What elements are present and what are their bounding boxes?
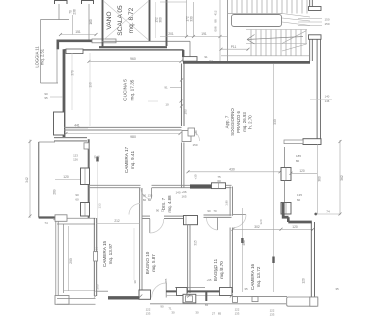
svg-text:30: 30 xyxy=(133,280,137,284)
svg-text:135: 135 xyxy=(148,194,153,198)
svg-text:70: 70 xyxy=(213,209,217,213)
vano scala cross diag 1 xyxy=(104,2,148,40)
dim line 120 terrace xyxy=(55,179,80,181)
camera15 faint dim line xyxy=(133,228,135,280)
svg-text:35: 35 xyxy=(335,287,339,291)
cucina top wall xyxy=(64,49,184,51)
bagno10/11 divider xyxy=(187,225,189,293)
svg-text:10: 10 xyxy=(165,103,169,107)
svg-text:VANO: VANO xyxy=(106,11,113,29)
svg-text:185: 185 xyxy=(296,154,301,158)
dim line P11 xyxy=(221,48,248,50)
svg-text:85: 85 xyxy=(218,312,222,316)
svg-text:212: 212 xyxy=(114,219,120,223)
svg-text:151: 151 xyxy=(75,30,81,34)
vano block bottom wall xyxy=(99,46,167,48)
svg-text:91: 91 xyxy=(164,86,168,90)
svg-text:120: 120 xyxy=(299,169,305,173)
svg-text:mq. 26.93: mq. 26.93 xyxy=(242,112,247,132)
balcony bottom corner box xyxy=(55,296,69,305)
left wall step box xyxy=(84,143,89,149)
svg-text:960: 960 xyxy=(130,57,136,61)
svg-text:133: 133 xyxy=(235,312,240,316)
dim line 302 xyxy=(233,228,281,230)
svg-text:90: 90 xyxy=(160,305,164,309)
svg-text:480: 480 xyxy=(242,240,246,246)
staircase treads upper flight xyxy=(231,0,233,14)
stair right pillar B xyxy=(309,35,322,40)
svg-text:315: 315 xyxy=(194,240,198,246)
dim line top mid xyxy=(160,1,187,3)
camera16 bottom line xyxy=(232,296,287,298)
svg-text:75: 75 xyxy=(96,155,100,159)
window on upper terrace wall xyxy=(92,39,116,43)
cucina-soggiorno boundary xyxy=(180,64,182,127)
staircase treads lower flight xyxy=(250,44,252,56)
dim line 91 opening xyxy=(170,87,181,89)
staircase treads right winders upper xyxy=(286,0,288,14)
svg-text:60: 60 xyxy=(148,198,152,202)
svg-text:238: 238 xyxy=(72,9,76,15)
loggia 11 bottom edge xyxy=(41,82,59,84)
dim vert 342 xyxy=(29,140,31,219)
svg-text:165: 165 xyxy=(181,195,186,199)
shaft box inner line xyxy=(185,216,187,225)
svg-text:90: 90 xyxy=(75,193,79,197)
right exterior wall upper xyxy=(316,39,318,144)
soggiorno top / stair bottom wall xyxy=(183,61,310,64)
svg-text:098: 098 xyxy=(214,26,218,31)
svg-text:95: 95 xyxy=(44,96,48,100)
svg-text:320: 320 xyxy=(259,219,263,224)
svg-text:146: 146 xyxy=(325,99,330,103)
svg-text:90: 90 xyxy=(156,209,160,213)
svg-text:30: 30 xyxy=(171,311,175,315)
svg-text:140: 140 xyxy=(175,191,180,195)
window band top right xyxy=(284,140,303,144)
svg-text:mq. 13.72: mq. 13.72 xyxy=(256,266,261,287)
door camera16 leaf and arc xyxy=(233,214,246,216)
svg-text:290: 290 xyxy=(69,258,73,264)
dim vert 480 xyxy=(241,208,243,292)
svg-text:91: 91 xyxy=(204,55,208,59)
svg-text:65: 65 xyxy=(205,303,209,307)
svg-text:133: 133 xyxy=(270,313,275,317)
shaft box between bagni xyxy=(184,216,198,225)
dim vert 290 xyxy=(68,226,70,291)
outer boundary top connector xyxy=(39,141,55,143)
bottom box F xyxy=(177,288,188,296)
bottom box camera15-bagno10 xyxy=(139,290,151,299)
svg-text:27: 27 xyxy=(212,312,216,316)
stair right wall upper xyxy=(309,0,311,7)
camera15 window jamb A xyxy=(81,168,90,185)
svg-text:980: 980 xyxy=(130,135,136,139)
outer boundary bottom wall xyxy=(39,216,60,218)
staircase landing rail xyxy=(232,15,282,27)
svg-text:mq. 17.35: mq. 17.35 xyxy=(130,79,135,100)
svg-text:165: 165 xyxy=(215,266,219,271)
svg-text:mq. 8.72: mq. 8.72 xyxy=(128,7,135,33)
dim line 212 xyxy=(96,223,140,225)
svg-text:085: 085 xyxy=(164,278,168,283)
svg-text:133: 133 xyxy=(146,312,151,316)
pillar top-left A xyxy=(55,1,68,5)
svg-text:74: 74 xyxy=(326,210,330,214)
svg-text:370: 370 xyxy=(71,70,75,76)
winder diag lower a xyxy=(282,31,307,44)
svg-text:mq. 2.51: mq. 2.51 xyxy=(40,48,45,65)
leader right labels xyxy=(310,99,332,101)
svg-text:330: 330 xyxy=(273,119,277,125)
svg-text:92: 92 xyxy=(209,59,213,63)
niche box soggiorno left xyxy=(188,128,195,136)
svg-text:330: 330 xyxy=(189,16,193,22)
winder fan lines upper right xyxy=(282,14,310,18)
camera15 left wall upper xyxy=(88,139,90,218)
svg-text:150: 150 xyxy=(192,143,197,147)
svg-text:SOGGIORNO: SOGGIORNO xyxy=(230,108,235,136)
right inset pillar A xyxy=(281,168,291,181)
right inset window line a xyxy=(284,147,286,168)
dim line 430 xyxy=(188,171,280,173)
svg-text:88: 88 xyxy=(214,19,218,23)
balcony parapet inner xyxy=(63,224,65,293)
bottom-right corner box xyxy=(310,297,318,306)
jog wall xyxy=(56,41,59,50)
dim line 441 xyxy=(66,127,88,129)
cucina top window xyxy=(66,49,83,54)
svg-text:133: 133 xyxy=(98,203,102,208)
soggiorno bottom wall xyxy=(183,184,232,186)
loggia 11 left edge xyxy=(40,20,42,84)
dim vert cucina b xyxy=(89,53,91,126)
shaft dim line xyxy=(155,2,157,38)
door dis-bagno10 leaf and arc xyxy=(149,219,151,233)
dim vert 362 xyxy=(339,140,341,215)
svg-text:412: 412 xyxy=(214,10,218,15)
camera15 left wall lower xyxy=(93,218,95,296)
svg-text:342: 342 xyxy=(25,177,29,183)
bottom-left balcony band xyxy=(57,298,96,300)
svg-text:CUCINA 5: CUCINA 5 xyxy=(123,79,128,101)
svg-text:120: 120 xyxy=(302,278,306,284)
dim line 120 inset xyxy=(291,172,317,174)
soggiorno top window box xyxy=(183,57,197,62)
svg-text:h. 2.70: h. 2.70 xyxy=(248,115,253,129)
svg-text:P11: P11 xyxy=(231,45,237,49)
svg-text:60: 60 xyxy=(217,179,221,183)
step wall cucina-soggiorno xyxy=(182,50,184,57)
dim line 960 xyxy=(89,60,181,62)
vano scala room bottom edge xyxy=(102,40,191,42)
dim vert 330 long xyxy=(273,64,275,292)
balcony left parapet xyxy=(55,219,57,298)
svg-text:120: 120 xyxy=(292,225,298,229)
camera15 window jamb B xyxy=(81,203,90,217)
svg-text:362: 362 xyxy=(340,175,344,181)
dis bottom wall left b xyxy=(164,215,184,217)
stair left wall xyxy=(227,0,229,62)
camera17/camera15 top wall xyxy=(89,184,141,186)
svg-text:60: 60 xyxy=(143,198,147,202)
svg-text:150: 150 xyxy=(324,22,329,26)
loggia 11 inner edge xyxy=(56,42,58,83)
shaft right wall xyxy=(166,0,168,46)
svg-text:mq. 5.87: mq. 5.87 xyxy=(151,254,156,272)
soggiorno window box xyxy=(212,183,226,189)
bottom outer line xyxy=(150,303,286,305)
svg-text:360: 360 xyxy=(317,176,321,182)
bottom-right balcony rect xyxy=(287,297,318,306)
svg-text:289: 289 xyxy=(53,189,57,195)
dim vert 344 line xyxy=(97,162,99,248)
svg-text:80: 80 xyxy=(296,159,300,163)
right step wall vert a xyxy=(282,203,285,216)
camera16 bottom box a xyxy=(233,297,238,303)
svg-text:344: 344 xyxy=(95,247,99,253)
camera16 left wall lower xyxy=(229,228,231,294)
staircase direction arrow xyxy=(247,37,303,40)
svg-text:BAGNO 10: BAGNO 10 xyxy=(145,251,150,274)
svg-text:+30: +30 xyxy=(194,174,198,179)
camera15 bottom thin line xyxy=(96,290,109,292)
door cucina-soggiorno leaf box xyxy=(182,131,191,142)
svg-text:126: 126 xyxy=(73,158,78,162)
camera16 bottom box b xyxy=(252,297,258,302)
bagni bottom upper line xyxy=(175,287,205,289)
door camera17-dis leaf and arc xyxy=(151,188,153,199)
svg-text:360: 360 xyxy=(158,17,162,23)
leader line a xyxy=(298,18,322,20)
dim vert 70-238 xyxy=(72,15,74,35)
svg-text:mq. 9.41: mq. 9.41 xyxy=(130,150,135,169)
left wall pilaster xyxy=(54,112,65,135)
thin step line right xyxy=(189,41,191,56)
upper terrace wall xyxy=(57,39,103,42)
bottom center box xyxy=(183,294,196,303)
vano scala left wall xyxy=(102,0,104,47)
dim vert cucina a xyxy=(71,53,73,110)
svg-text:90: 90 xyxy=(143,194,147,198)
right inset window line b xyxy=(284,181,286,203)
pillar top-left B xyxy=(82,1,94,5)
svg-text:SCALA 05: SCALA 05 xyxy=(117,5,124,36)
wire pillarB stem xyxy=(88,4,90,40)
dis bottom wall left a xyxy=(142,215,150,217)
dim line 151 xyxy=(61,34,97,36)
svg-text:120: 120 xyxy=(63,175,69,179)
svg-text:74: 74 xyxy=(44,221,48,225)
bottom center inner box xyxy=(186,296,193,302)
dim line 74 r xyxy=(316,213,340,215)
svg-text:CAMERA 17: CAMERA 17 xyxy=(124,146,129,173)
svg-text:30: 30 xyxy=(195,311,199,315)
cucina bottom wall xyxy=(64,126,182,128)
dim vert 330b xyxy=(219,0,221,62)
right step wall horiz a xyxy=(282,216,289,219)
svg-text:+95: +95 xyxy=(207,278,212,282)
vano scala cross diag 2 xyxy=(104,2,148,40)
right exterior wall lower xyxy=(310,222,312,298)
stair right pillar A xyxy=(309,7,322,11)
svg-text:60: 60 xyxy=(297,198,301,202)
balcony inner bottom line xyxy=(64,290,96,292)
svg-text:12: 12 xyxy=(161,209,165,213)
vano scala right wall xyxy=(149,0,151,41)
bagno10 door: leaf + arc xyxy=(165,283,167,298)
svg-text:90: 90 xyxy=(207,209,211,213)
svg-text:+30: +30 xyxy=(194,130,198,135)
svg-text:201: 201 xyxy=(168,32,174,36)
door dis-bagno11 leaf and arc xyxy=(217,218,219,231)
camera15/bagno10 divider xyxy=(139,188,141,293)
dis top wall xyxy=(152,184,184,186)
bagni bottom line2 xyxy=(166,294,233,296)
outer boundary left wall xyxy=(38,142,40,218)
wall below left exterior xyxy=(54,137,87,139)
right wall corner box xyxy=(303,139,321,145)
svg-text:302: 302 xyxy=(254,225,260,229)
dim line 120 r xyxy=(281,228,313,230)
bagno11 right wall upper xyxy=(229,187,231,216)
svg-text:CAMERA 16: CAMERA 16 xyxy=(250,263,255,290)
leader left xyxy=(50,96,63,98)
balcony top corner box xyxy=(55,215,67,222)
camera15 bottom wall band xyxy=(108,296,148,299)
camera15 left window jamb xyxy=(94,252,98,262)
svg-text:135: 135 xyxy=(297,193,302,197)
right inset pillar B xyxy=(281,203,291,215)
leader line b xyxy=(298,21,322,23)
svg-text:60: 60 xyxy=(75,198,79,202)
loggia 11 top edge xyxy=(41,19,70,21)
svg-text:140: 140 xyxy=(325,95,330,99)
bagno11 top wall xyxy=(204,214,232,216)
boundary lower wall xyxy=(181,143,183,189)
svg-text:191: 191 xyxy=(201,32,207,36)
dim line 201-191 xyxy=(160,36,227,38)
svg-text:mq. 4.88: mq. 4.88 xyxy=(167,195,172,213)
svg-text:+66: +66 xyxy=(181,190,186,194)
balcony top inner line xyxy=(57,223,95,225)
svg-text:430: 430 xyxy=(229,167,235,171)
dim line 980 xyxy=(66,133,180,135)
staircase treads middle flight xyxy=(246,29,307,31)
winder diag lower b xyxy=(282,44,307,51)
left exterior wall upper xyxy=(63,49,66,137)
bagni bottom wall band xyxy=(166,290,233,292)
svg-text:160: 160 xyxy=(89,19,93,25)
right step wall horiz b xyxy=(288,221,312,224)
svg-text:180: 180 xyxy=(184,109,188,115)
svg-text:18: 18 xyxy=(219,268,223,272)
svg-text:35: 35 xyxy=(244,287,248,291)
svg-text:mq. 13.97: mq. 13.97 xyxy=(108,243,113,264)
tick cucina right xyxy=(148,100,158,102)
right step wall vert b xyxy=(287,217,290,222)
svg-text:CAMERA 15: CAMERA 15 xyxy=(102,240,107,267)
svg-text:280: 280 xyxy=(96,284,100,289)
svg-text:PRANZO 6: PRANZO 6 xyxy=(236,110,241,133)
door dis-camera15 arc xyxy=(129,204,140,215)
leader line c xyxy=(298,25,322,27)
bottom box H xyxy=(220,288,233,296)
bagno11 bottom jamb xyxy=(205,291,207,302)
dim vert 330a xyxy=(193,2,195,37)
svg-text:App. 7: App. 7 xyxy=(224,115,229,128)
svg-text:190: 190 xyxy=(89,82,93,88)
stair right wall lower xyxy=(309,39,311,61)
balcony top outer line xyxy=(55,217,96,219)
dim vert 360 xyxy=(316,144,318,214)
wire pillarA stem xyxy=(58,4,60,20)
dim vert 172 xyxy=(186,0,188,37)
svg-text:1.80: 1.80 xyxy=(225,200,229,206)
